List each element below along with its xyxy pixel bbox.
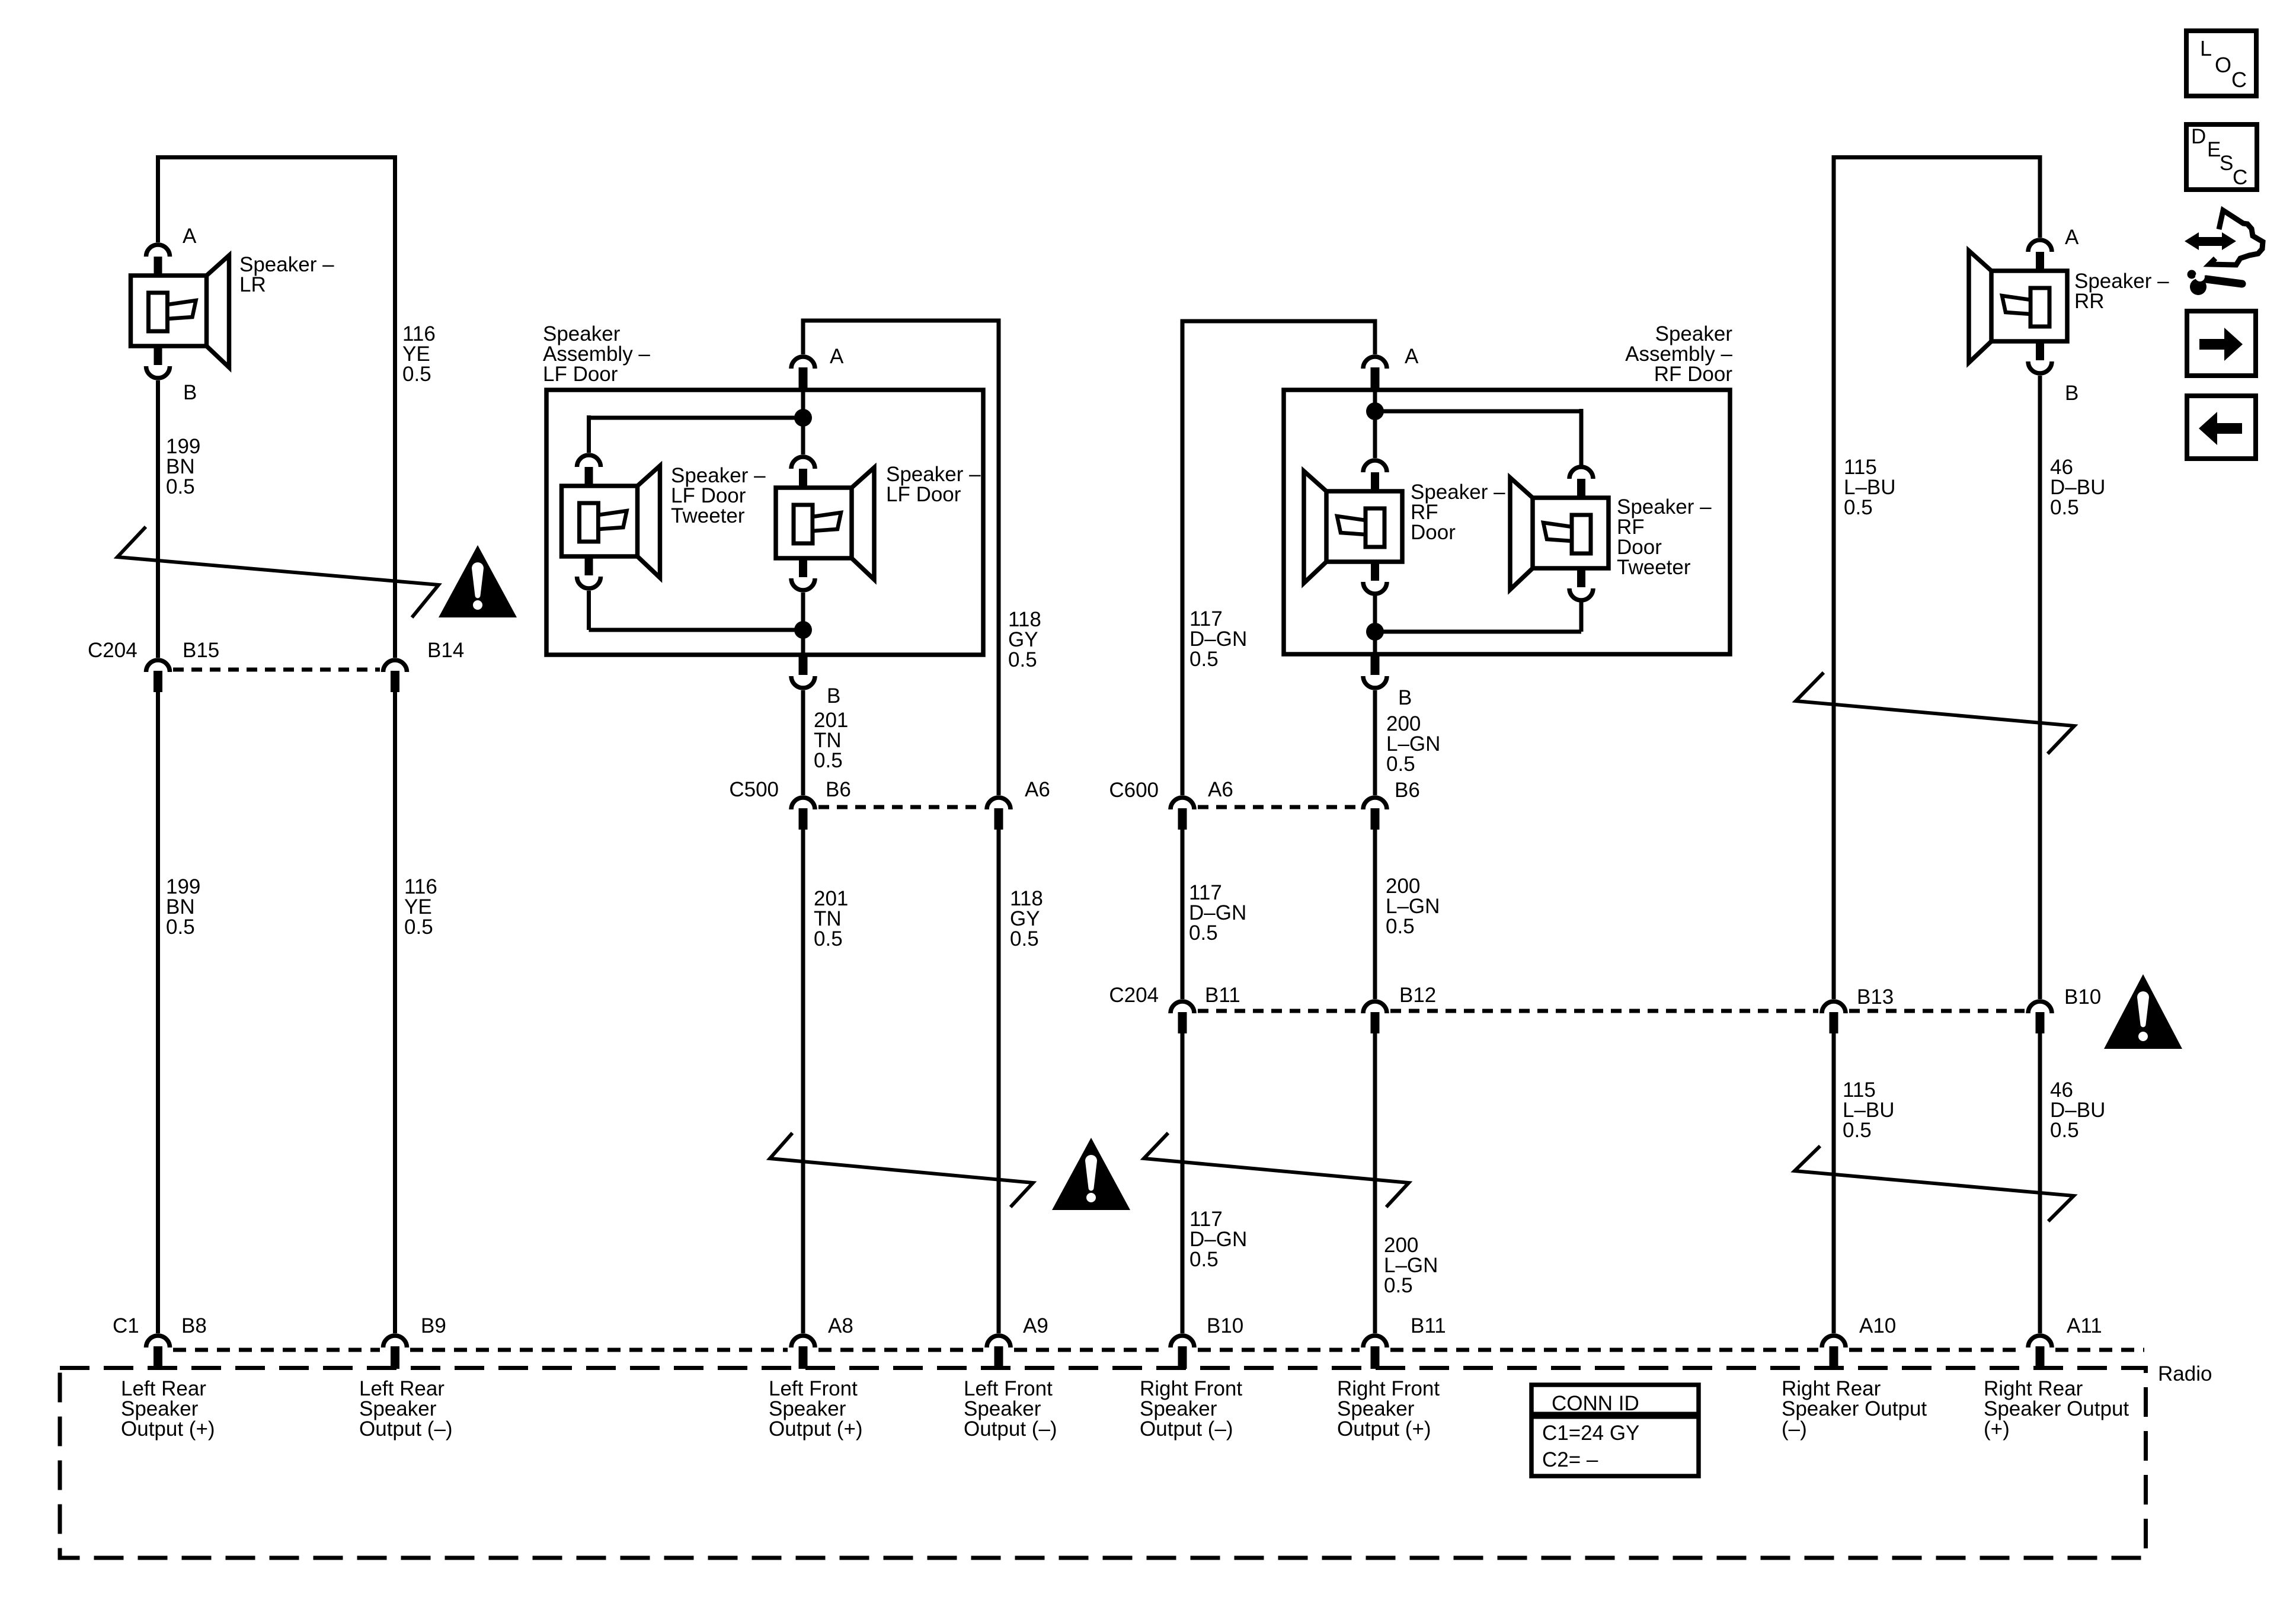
connector pin A (LF assembly) bbox=[791, 357, 815, 369]
svg-text:C600: C600 bbox=[1109, 779, 1159, 802]
radio connector pin A11 bbox=[2028, 1336, 2052, 1347]
twisted-pair crossing symbol (RF wires) bbox=[1144, 1133, 1409, 1207]
svg-text:B12: B12 bbox=[1399, 984, 1436, 1007]
connector C204 pin B15 bbox=[146, 660, 170, 672]
junction dot LF top bbox=[794, 409, 812, 427]
svg-text:B10: B10 bbox=[1207, 1314, 1243, 1337]
wire: c6 from loop to pin A bbox=[1373, 319, 1377, 354]
svg-text:B15: B15 bbox=[183, 639, 219, 662]
dashed connector line C500 bbox=[818, 805, 984, 809]
twisted-pair crossing symbol (RR wires upper) bbox=[1796, 673, 2074, 754]
svg-text:(+): (+) bbox=[1984, 1417, 2010, 1441]
wire: c5 C204 to radio bbox=[1181, 1033, 1185, 1333]
icon wrench bbox=[2206, 279, 2242, 284]
svg-text:C204: C204 bbox=[1109, 984, 1159, 1007]
wire: RF inner horizontal bottom bbox=[1375, 630, 1581, 634]
svg-text:0.5: 0.5 bbox=[1010, 927, 1039, 950]
svg-text:A6: A6 bbox=[1025, 778, 1050, 801]
svg-text:B: B bbox=[827, 684, 840, 708]
svg-text:CONN ID: CONN ID bbox=[1552, 1392, 1639, 1415]
wire: 46 D-BU segment c8 bbox=[2038, 376, 2042, 999]
svg-text:B: B bbox=[183, 381, 197, 404]
svg-text:Output (–): Output (–) bbox=[964, 1417, 1057, 1441]
radio connector pin B10 bbox=[1171, 1336, 1194, 1347]
wire: c6 C600 to C204 bbox=[1373, 830, 1377, 999]
speaker LF Door Tweeter bbox=[562, 455, 660, 588]
svg-text:Output (–): Output (–) bbox=[359, 1417, 453, 1441]
svg-text:B6: B6 bbox=[826, 778, 851, 801]
wire: c6 C204 to radio bbox=[1373, 1033, 1377, 1333]
assembly box RF Door bbox=[1284, 390, 1730, 654]
twisted-pair crossing symbol (LR wires) bbox=[117, 527, 439, 617]
wire: 116 YE segment c2 lower bbox=[393, 692, 397, 1333]
speaker LR bbox=[131, 245, 229, 378]
wire: RR speaker loop top horizontal bbox=[1832, 155, 2042, 159]
svg-text:B14: B14 bbox=[427, 639, 464, 662]
svg-text:Output (+): Output (+) bbox=[121, 1417, 215, 1441]
svg-text:C: C bbox=[2233, 166, 2247, 189]
twisted-pair crossing symbol (LF wires) bbox=[770, 1133, 1033, 1207]
warning triangle 3 bbox=[2104, 974, 2182, 1049]
connector C600 pin B6 bbox=[1363, 798, 1387, 809]
svg-text:RF Door: RF Door bbox=[1654, 363, 1733, 386]
wire: 199 BN segment c1 top bbox=[156, 155, 160, 242]
twisted-pair crossing symbol (RR wires lower) bbox=[1795, 1146, 2074, 1221]
assembly box LF Door bbox=[546, 390, 983, 655]
connector C204 pin B10 bbox=[2028, 1001, 2052, 1013]
wire: RF inner horizontal top bbox=[1375, 409, 1581, 414]
radio box (dashed) bbox=[60, 1368, 2146, 1558]
svg-text:C1: C1 bbox=[113, 1314, 139, 1337]
svg-text:0.5: 0.5 bbox=[1189, 648, 1219, 671]
wire: LF inner horizontal top bbox=[589, 416, 804, 420]
radio connector pin A9 bbox=[987, 1336, 1011, 1347]
svg-text:C1=24 GY: C1=24 GY bbox=[1542, 1422, 1639, 1445]
svg-text:0.5: 0.5 bbox=[814, 927, 843, 950]
svg-text:RR: RR bbox=[2074, 290, 2105, 313]
svg-text:A: A bbox=[183, 225, 197, 248]
svg-text:Tweeter: Tweeter bbox=[1617, 556, 1691, 579]
svg-text:C2= –: C2= – bbox=[1542, 1448, 1598, 1471]
wire: RF door speaker bottom to pin B bbox=[1373, 596, 1377, 654]
svg-text:0.5: 0.5 bbox=[166, 475, 195, 498]
wire: LF loop top horizontal bbox=[801, 319, 1001, 323]
svg-text:E: E bbox=[2207, 138, 2221, 161]
svg-text:0.5: 0.5 bbox=[1386, 915, 1415, 938]
svg-text:C500: C500 bbox=[729, 778, 779, 801]
svg-text:0.5: 0.5 bbox=[1843, 1119, 1872, 1142]
svg-text:B11: B11 bbox=[1411, 1314, 1446, 1337]
junction dot LF bottom bbox=[794, 621, 812, 639]
svg-text:O: O bbox=[2215, 53, 2231, 77]
dashed connector line C600 bbox=[1198, 805, 1360, 809]
svg-text:0.5: 0.5 bbox=[1008, 648, 1037, 671]
wire: LF tweeter bottom to inner horizontal bbox=[587, 591, 591, 630]
radio connector pin B11 bbox=[1363, 1336, 1387, 1347]
svg-text:D: D bbox=[2191, 125, 2206, 148]
connector C204 pin B13 bbox=[1822, 1001, 1846, 1013]
warning triangle 1 bbox=[439, 545, 517, 617]
svg-text:B13: B13 bbox=[1857, 985, 1894, 1009]
svg-text:A6: A6 bbox=[1208, 778, 1233, 801]
svg-text:A10: A10 bbox=[1859, 1314, 1896, 1337]
connector pin A (RF assembly) bbox=[1363, 357, 1387, 369]
wire: RF tweeter drop bbox=[1579, 409, 1584, 466]
svg-text:Output (+): Output (+) bbox=[769, 1417, 863, 1441]
wire: c8 top to speaker bbox=[2038, 155, 2042, 238]
dashed connector line C204 lower (B13-B10) bbox=[1849, 1009, 2025, 1013]
dashed connector line C204 (B15-B14) bbox=[173, 668, 380, 672]
wire: c4 C500 to radio bbox=[997, 830, 1001, 1333]
connector C500 pin B6 bbox=[791, 798, 815, 809]
svg-text:0.5: 0.5 bbox=[404, 916, 433, 939]
svg-text:B8: B8 bbox=[181, 1314, 207, 1337]
junction dot RF top bbox=[1366, 402, 1384, 420]
connector C204 pin B14 bbox=[383, 660, 407, 672]
speaker RF Door Tweeter bbox=[1510, 467, 1609, 600]
svg-text:Output (+): Output (+) bbox=[1337, 1417, 1431, 1441]
connector C500 pin A6 bbox=[987, 798, 1011, 809]
warning triangle 2 bbox=[1052, 1138, 1130, 1210]
svg-text:0.5: 0.5 bbox=[814, 749, 843, 772]
wire: 116 YE segment c2 top bbox=[393, 155, 397, 658]
wire: RF tweeter bottom to inner horizontal bbox=[1579, 602, 1584, 632]
icon right arrow bbox=[2199, 328, 2243, 361]
CONN ID table box bbox=[1531, 1385, 1699, 1476]
svg-text:LF Door: LF Door bbox=[886, 483, 961, 506]
icon panel outline (wrench icon) bbox=[2209, 210, 2263, 265]
svg-text:0.5: 0.5 bbox=[1384, 1274, 1413, 1297]
svg-text:A8: A8 bbox=[828, 1314, 853, 1337]
dashed connector line C204 lower (B11-B12) bbox=[1198, 1009, 1360, 1013]
radio connector pin A10 bbox=[1822, 1336, 1846, 1347]
icon right-arrow box bbox=[2187, 311, 2256, 376]
svg-text:B: B bbox=[1398, 686, 1412, 709]
wire: LF tweeter drop bbox=[587, 415, 591, 453]
svg-text:B9: B9 bbox=[421, 1314, 446, 1337]
wire: c3 C500 to radio bbox=[801, 830, 805, 1333]
svg-text:L: L bbox=[2200, 36, 2212, 60]
wire: 199 BN segment c1 lower bbox=[156, 692, 160, 1333]
svg-text:A: A bbox=[2065, 226, 2079, 249]
icon LOC box bbox=[2186, 31, 2256, 96]
icon left arrow bbox=[2199, 412, 2242, 445]
svg-text:C: C bbox=[2231, 68, 2247, 92]
radio connector pin B9 bbox=[383, 1336, 407, 1347]
connector C204 pin B11 bbox=[1171, 1001, 1194, 1013]
connector pin B (LF assembly) bbox=[799, 655, 808, 675]
wire: LF door speaker bottom to junction bbox=[801, 593, 805, 655]
svg-text:0.5: 0.5 bbox=[1189, 1248, 1219, 1271]
svg-text:B10: B10 bbox=[2064, 985, 2101, 1009]
svg-text:A9: A9 bbox=[1023, 1314, 1048, 1337]
icon DESC box bbox=[2186, 124, 2257, 190]
wire: c3 pinB to C500 bbox=[801, 690, 805, 795]
svg-text:C204: C204 bbox=[88, 639, 137, 662]
svg-text:0.5: 0.5 bbox=[166, 916, 195, 939]
svg-text:A: A bbox=[1405, 345, 1419, 368]
svg-text:0.5: 0.5 bbox=[1189, 921, 1218, 945]
junction dot RF bottom bbox=[1366, 623, 1384, 641]
svg-text:B: B bbox=[2065, 382, 2078, 405]
svg-text:0.5: 0.5 bbox=[1386, 753, 1415, 776]
dashed connector line C204 lower (B12-B13) bbox=[1390, 1009, 1818, 1013]
icon double arrow bbox=[2185, 232, 2236, 250]
svg-text:0.5: 0.5 bbox=[1844, 496, 1873, 519]
wire: inside LF box vertical to junction bbox=[801, 390, 805, 454]
svg-text:Output (–): Output (–) bbox=[1140, 1417, 1233, 1441]
svg-text:Door: Door bbox=[1411, 521, 1456, 544]
svg-text:A: A bbox=[830, 345, 844, 368]
wire: c3 from loop to pin A bbox=[801, 319, 805, 354]
radio connector pin A8 bbox=[791, 1336, 815, 1347]
wire: LR speaker loop top horizontal bbox=[156, 155, 397, 159]
connector C600 pin A6 bbox=[1171, 798, 1194, 809]
svg-text:LR: LR bbox=[239, 273, 266, 296]
svg-text:LF Door: LF Door bbox=[543, 363, 618, 386]
wire: c7 C204 to radio bbox=[1832, 1033, 1836, 1333]
wire: 199 BN segment c1 to C204 bbox=[156, 380, 160, 658]
icon left-arrow box bbox=[2187, 396, 2256, 459]
svg-text:B6: B6 bbox=[1395, 779, 1420, 802]
wire: c6 pinB to C600 bbox=[1373, 690, 1377, 795]
wire: 117 D-GN segment c5 bbox=[1181, 319, 1185, 795]
wire: RF loop top horizontal bbox=[1181, 319, 1377, 324]
svg-text:Tweeter: Tweeter bbox=[671, 504, 745, 527]
svg-text:0.5: 0.5 bbox=[2050, 1119, 2079, 1142]
svg-text:0.5: 0.5 bbox=[402, 363, 431, 386]
speaker RR bbox=[1969, 240, 2067, 373]
svg-text:Radio: Radio bbox=[2158, 1362, 2212, 1385]
connector C204 pin B12 bbox=[1363, 1001, 1387, 1013]
svg-text:(–): (–) bbox=[1782, 1417, 1807, 1441]
radio connector row dashed line bbox=[173, 1348, 380, 1352]
speaker LF Door bbox=[776, 457, 874, 590]
svg-text:0.5: 0.5 bbox=[2050, 496, 2079, 519]
wire: LF inner horizontal bottom bbox=[589, 628, 804, 632]
speaker RF Door bbox=[1304, 460, 1402, 594]
wire: c5 C600 to C204 bbox=[1181, 830, 1185, 999]
connector pin B (RF assembly) bbox=[1371, 654, 1380, 675]
wire: 118 GY segment c4 bbox=[997, 319, 1001, 795]
wire: c8 C204 to radio bbox=[2038, 1033, 2042, 1333]
svg-text:A11: A11 bbox=[2067, 1314, 2102, 1337]
svg-text:S: S bbox=[2220, 152, 2233, 175]
wire: inside RF box vertical to junction bbox=[1373, 390, 1377, 458]
wire: 115 L-BU segment c7 bbox=[1832, 155, 1836, 999]
radio connector pin B8 bbox=[146, 1336, 170, 1347]
svg-text:B11: B11 bbox=[1205, 984, 1240, 1007]
